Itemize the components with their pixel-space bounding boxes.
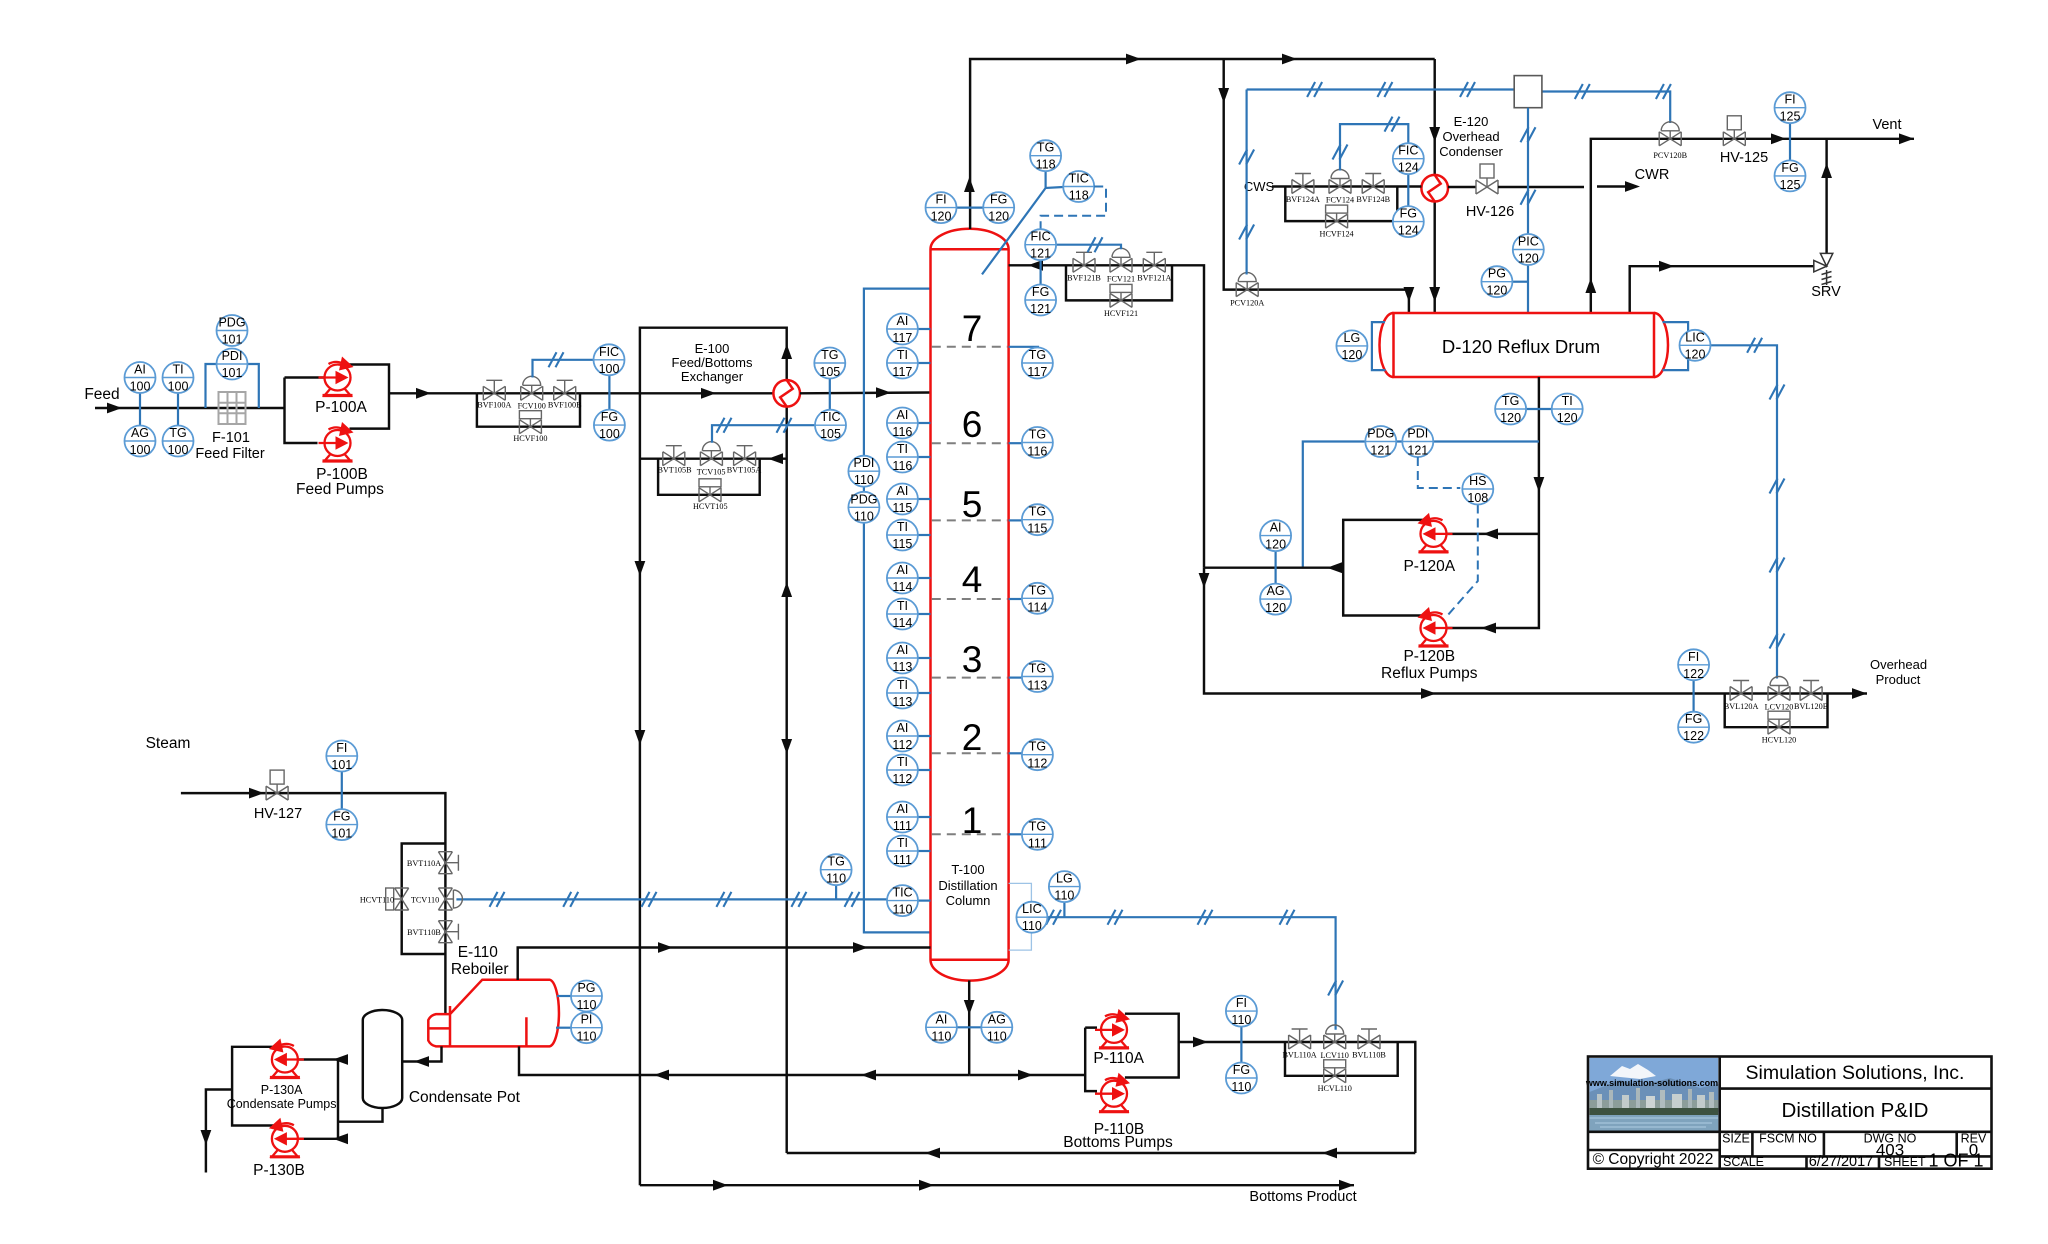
instrument TG 111 <box>1009 819 1053 851</box>
wire TCV110-TIC110 signal line <box>456 892 887 907</box>
tray 7 <box>932 308 1008 349</box>
svg-text:FIC: FIC <box>1398 144 1418 158</box>
svg-text:Feed Pumps: Feed Pumps <box>296 481 384 498</box>
svg-text:D-120 Reflux Drum: D-120 Reflux Drum <box>1442 336 1600 357</box>
svg-text:FI: FI <box>336 741 347 755</box>
svg-text:HV-126: HV-126 <box>1466 204 1514 220</box>
svg-text:Product: Product <box>1876 672 1921 687</box>
wire LIC110 signal to LCV110 <box>1046 910 1343 1030</box>
valve PCV120A <box>1236 273 1258 297</box>
svg-text:100: 100 <box>168 380 189 394</box>
svg-text:101: 101 <box>222 333 243 347</box>
svg-text:PDG: PDG <box>1367 427 1394 441</box>
wire E-100 hot-side loop (left downcomer, top, right riser) <box>635 328 793 1185</box>
instrument AI 112 <box>887 721 931 753</box>
svg-text:BVF121B: BVF121B <box>1067 274 1101 283</box>
instrument TI 112 <box>887 755 931 787</box>
svg-text:2: 2 <box>962 717 983 758</box>
instrument TI 120 <box>1552 394 1583 426</box>
svg-text:TG: TG <box>821 348 838 362</box>
svg-text:Overhead: Overhead <box>1870 657 1927 672</box>
svg-text:BVF124B: BVF124B <box>1356 195 1390 204</box>
instrument TI 117 <box>887 348 931 380</box>
svg-text:110: 110 <box>826 872 846 886</box>
svg-text:P-110A: P-110A <box>1093 1050 1144 1067</box>
svg-text:LG: LG <box>1344 331 1361 345</box>
wire bottoms pump suction/discharge box <box>1085 1014 1179 1091</box>
instrument TIC 110 <box>887 885 931 917</box>
instrument FG 110 <box>1226 1063 1257 1095</box>
svg-text:HS: HS <box>1469 474 1486 488</box>
svg-text:110: 110 <box>577 998 597 1012</box>
svg-text:Bottoms Pumps: Bottoms Pumps <box>1063 1134 1173 1151</box>
instrument TI 111 <box>887 836 931 868</box>
instrument TG 114 <box>1009 583 1053 615</box>
svg-text:Vent: Vent <box>1872 117 1901 133</box>
svg-text:TG: TG <box>1502 394 1519 408</box>
svg-text:115: 115 <box>892 501 912 515</box>
svg-text:121: 121 <box>1030 247 1051 261</box>
instrument PDG 110 <box>848 492 879 524</box>
svg-text:AI: AI <box>935 1012 947 1026</box>
pump P-120A <box>1418 513 1453 552</box>
svg-text:120: 120 <box>988 210 1009 224</box>
instrument PDI 110 <box>848 456 879 488</box>
svg-text:101: 101 <box>222 366 243 380</box>
instrument AG 110 <box>981 1012 1012 1044</box>
svg-text:FI: FI <box>1688 650 1699 664</box>
svg-text:113: 113 <box>892 695 912 709</box>
svg-text:6: 6 <box>962 404 983 445</box>
instrument TG 112 <box>1009 739 1053 771</box>
svg-text:122: 122 <box>1683 667 1704 681</box>
instrument AI 100 <box>125 362 156 394</box>
svg-text:AG: AG <box>988 1012 1006 1026</box>
instrument PDG 121 <box>1365 426 1396 458</box>
title block text company <box>1746 1062 1965 1084</box>
svg-text:TCV110: TCV110 <box>411 895 439 904</box>
svg-text:TIC: TIC <box>1069 172 1089 186</box>
svg-text:P-100A: P-100A <box>315 399 367 416</box>
wire PDI-101 tap loop around filter <box>206 364 259 408</box>
wire FIC100 signal to FCV100 <box>533 352 594 377</box>
instrument AG 120 <box>1260 584 1291 616</box>
valve LCV120 <box>1768 677 1790 701</box>
wire reflux pump discharge box <box>1204 520 1425 616</box>
svg-text:114: 114 <box>892 580 912 594</box>
svg-text:HCVL120: HCVL120 <box>1762 735 1797 744</box>
instrument FG 124 <box>1393 206 1424 238</box>
svg-text:120: 120 <box>1265 601 1286 615</box>
valve PCV120B <box>1659 122 1681 146</box>
svg-text:F-101: F-101 <box>212 430 250 446</box>
svg-text:Bottoms Product: Bottoms Product <box>1249 1189 1356 1205</box>
svg-text:125: 125 <box>1780 178 1801 192</box>
svg-text:AI: AI <box>896 484 908 498</box>
tray 6 <box>932 404 1008 445</box>
svg-text:FIC: FIC <box>1031 230 1051 244</box>
svg-text:115: 115 <box>892 537 912 551</box>
valve HCVL110 <box>1324 1060 1346 1083</box>
vessel D-120 reflux drum <box>1380 313 1668 377</box>
svg-text:116: 116 <box>892 459 912 473</box>
valve BVF121A <box>1143 252 1165 272</box>
svg-text:HV-125: HV-125 <box>1720 150 1768 166</box>
svg-text:TI: TI <box>897 348 908 362</box>
wire AI/AG-100 tap <box>139 392 141 426</box>
svg-text:105: 105 <box>820 427 841 441</box>
instrument PI 110 <box>571 1012 602 1044</box>
svg-text:SIZE: SIZE <box>1722 1132 1750 1146</box>
wire TIC118-FIC121 dashed signal <box>1041 187 1106 230</box>
valve TCV110 <box>438 888 462 910</box>
instrument FIC 100 <box>594 344 625 376</box>
svg-text:110: 110 <box>931 1029 951 1043</box>
exchanger E-120 overhead condenser <box>1421 175 1448 202</box>
svg-text:Distillation P&ID: Distillation P&ID <box>1782 1099 1929 1122</box>
svg-text:© Copyright 2022: © Copyright 2022 <box>1593 1151 1714 1168</box>
svg-text:Feed/Bottoms: Feed/Bottoms <box>672 355 753 370</box>
pump P-130A <box>269 1039 304 1078</box>
instrument FI 122 <box>1678 649 1709 681</box>
valve HCVF124 <box>1326 205 1348 228</box>
svg-text:FG: FG <box>990 193 1007 207</box>
svg-text:E-110: E-110 <box>458 944 499 961</box>
valve BVF124B <box>1362 174 1384 194</box>
svg-text:AI: AI <box>896 643 908 657</box>
instrument PIC 120 <box>1513 234 1544 266</box>
svg-text:PDG: PDG <box>850 492 877 506</box>
wire FIC121/FG121 tap <box>1039 260 1041 284</box>
svg-text:TI: TI <box>172 363 183 377</box>
instrument AI 113 <box>887 643 931 675</box>
instrument TI 113 <box>887 678 931 710</box>
wire condensate outlet to pot <box>402 1046 441 1067</box>
svg-text:120: 120 <box>1685 347 1706 361</box>
wire AI/AG-120 tap <box>1274 551 1276 584</box>
wire TG110 stub <box>835 885 837 899</box>
svg-text:HCVF100: HCVF100 <box>513 434 547 443</box>
vessel E-110 reboiler <box>428 980 559 1047</box>
svg-text:105: 105 <box>819 365 840 379</box>
valve BVL110B <box>1358 1029 1380 1049</box>
wire feed line to E-100 <box>580 388 773 399</box>
svg-text:Steam: Steam <box>146 735 191 752</box>
valve FCV100 <box>521 376 543 400</box>
wire condensate pump suction header <box>298 1054 348 1144</box>
wire vent line <box>1585 117 1914 313</box>
valve HCVF100 <box>519 411 541 434</box>
svg-text:BVF124A: BVF124A <box>1286 195 1320 204</box>
instrument AG 100 <box>125 426 156 458</box>
svg-text:LIC: LIC <box>1685 330 1704 344</box>
wire FI101/FG101 tap <box>341 772 343 810</box>
svg-text:125: 125 <box>1780 110 1801 124</box>
instrument FI 110 <box>1226 996 1257 1028</box>
svg-text:6/27/2017: 6/27/2017 <box>1809 1154 1874 1170</box>
svg-text:110: 110 <box>1231 1013 1251 1027</box>
svg-text:117: 117 <box>1027 365 1047 379</box>
instrument FI 125 <box>1775 92 1806 124</box>
wire LIC110 level bracket <box>1009 883 1032 950</box>
instrument TG 110 <box>821 854 852 886</box>
title block sheet value <box>1928 1151 1983 1171</box>
instrument HS 108 <box>1462 474 1493 506</box>
instrument FG 100 <box>594 410 625 442</box>
wire FI125/FG125 tap <box>1789 123 1791 160</box>
instrument PG 120 <box>1481 266 1512 298</box>
tray 5 <box>932 484 1008 525</box>
wire TG120/TI120 tap <box>1526 408 1552 410</box>
wire pump discharge to LCV110 manifold <box>1179 1037 1416 1153</box>
svg-text:110: 110 <box>577 1030 597 1044</box>
instrument TG 120 <box>1495 394 1526 426</box>
svg-text:HCVF121: HCVF121 <box>1104 309 1138 318</box>
svg-text:5: 5 <box>962 484 983 525</box>
svg-text:1 OF 1: 1 OF 1 <box>1928 1151 1983 1171</box>
instrument TG 117 <box>1009 347 1053 379</box>
svg-text:AI: AI <box>896 721 908 735</box>
title block bottom row <box>1723 1154 1926 1170</box>
svg-text:100: 100 <box>599 362 620 376</box>
instrument FI 120 <box>926 192 957 224</box>
wire TG105/TIC105 tap <box>829 379 831 410</box>
svg-text:BVF100A: BVF100A <box>477 401 511 410</box>
svg-text:110: 110 <box>1054 889 1074 903</box>
svg-text:TG: TG <box>169 426 186 440</box>
svg-text:AI: AI <box>896 802 908 816</box>
wire AI/AG-110 tap <box>957 1026 981 1028</box>
svg-text:TG: TG <box>1029 505 1046 519</box>
svg-text:FSCM NO: FSCM NO <box>1759 1132 1817 1146</box>
svg-text:110: 110 <box>893 903 913 917</box>
svg-text:FI: FI <box>935 193 946 207</box>
valve BVF124A <box>1292 174 1314 194</box>
instrument FI 101 <box>326 741 357 773</box>
vessel T-100 distillation column <box>931 229 1009 981</box>
svg-text:CWR: CWR <box>1635 167 1670 183</box>
svg-text:PI: PI <box>581 1013 593 1027</box>
wire feed inlet line <box>95 403 285 414</box>
valve HCVT110 <box>386 888 409 910</box>
instrument TG 113 <box>1009 661 1053 693</box>
wire HS108 dashed signal to pumps <box>1447 505 1478 617</box>
wire LIC120 signal to LCV120 <box>1711 338 1785 679</box>
valve HV-125 <box>1723 116 1745 146</box>
wire bottoms to pump suction <box>969 1070 1085 1081</box>
wire FIC121 signal to FCV121 <box>1057 237 1121 252</box>
svg-text:PCV120B: PCV120B <box>1653 151 1687 160</box>
valve BVT110A <box>438 852 458 874</box>
pump P-110B <box>1095 1073 1130 1112</box>
svg-text:FG: FG <box>1685 712 1702 726</box>
svg-text:TG: TG <box>1029 740 1046 754</box>
instrument TG 105 <box>814 348 845 380</box>
svg-text:Overhead: Overhead <box>1442 129 1499 144</box>
node CWS label <box>1244 179 1275 194</box>
svg-text:PIC: PIC <box>1518 235 1539 249</box>
valve BVL110A <box>1289 1029 1311 1049</box>
wire pump suction/discharge box P-100 <box>285 365 390 444</box>
valve FCV121 <box>1110 248 1132 272</box>
wire FIC100/FG100 tap <box>608 375 610 409</box>
title block frame <box>1588 1057 1992 1169</box>
svg-text:121: 121 <box>1407 444 1428 458</box>
relief valve SRV <box>1814 253 1833 285</box>
wire FCV124 signal loop <box>1333 117 1409 171</box>
vessel condensate pot <box>363 1010 402 1108</box>
svg-text:AI: AI <box>896 314 908 328</box>
instrument TG 115 <box>1009 504 1053 536</box>
svg-text:120: 120 <box>1265 538 1286 552</box>
svg-text:Condensate Pot: Condensate Pot <box>409 1089 521 1106</box>
svg-text:SRV: SRV <box>1811 284 1841 300</box>
svg-text:111: 111 <box>893 853 912 867</box>
svg-text:TI: TI <box>897 599 908 613</box>
svg-text:FG: FG <box>1032 285 1049 299</box>
svg-text:BVL110B: BVL110B <box>1352 1050 1386 1059</box>
valve LCV110 <box>1324 1025 1346 1049</box>
svg-text:FG: FG <box>333 810 350 824</box>
svg-text:115: 115 <box>1027 522 1047 536</box>
svg-text:7: 7 <box>962 308 983 349</box>
instrument LG 110 <box>1049 871 1080 903</box>
svg-text:111: 111 <box>1028 836 1047 850</box>
valve BVT105A <box>734 446 756 466</box>
svg-text:Exchanger: Exchanger <box>681 369 744 384</box>
svg-text:TIC: TIC <box>892 886 912 900</box>
svg-text:124: 124 <box>1398 224 1419 238</box>
pump P-100B <box>319 422 354 461</box>
svg-text:FG: FG <box>1400 207 1417 221</box>
svg-text:PDI: PDI <box>1407 427 1428 441</box>
svg-text:E-100: E-100 <box>695 341 730 356</box>
svg-text:PDG: PDG <box>218 316 245 330</box>
svg-text:112: 112 <box>1027 757 1047 771</box>
svg-text:TCV105: TCV105 <box>697 468 726 477</box>
tray 1 <box>932 800 1008 841</box>
instrument TI 114 <box>887 599 931 631</box>
svg-text:Simulation Solutions, Inc.: Simulation Solutions, Inc. <box>1746 1062 1965 1084</box>
instrument FIC 124 <box>1393 143 1424 175</box>
svg-text:120: 120 <box>931 210 952 224</box>
svg-text:121: 121 <box>1030 302 1051 316</box>
svg-text:100: 100 <box>130 380 151 394</box>
svg-text:TIC: TIC <box>820 410 840 424</box>
svg-text:FG: FG <box>601 410 618 424</box>
wire FIC124/FG124 tap <box>1407 174 1409 206</box>
svg-text:120: 120 <box>1557 411 1578 425</box>
title block text drawing title <box>1782 1099 1929 1122</box>
svg-text:TG: TG <box>1029 583 1046 597</box>
svg-text:BVF121A: BVF121A <box>1137 274 1171 283</box>
svg-text:100: 100 <box>599 427 620 441</box>
wire steam line <box>181 788 446 844</box>
svg-text:FG: FG <box>1233 1063 1250 1077</box>
svg-text:PCV120A: PCV120A <box>1230 299 1264 308</box>
instrument PDI 121 <box>1402 426 1433 458</box>
svg-text:LG: LG <box>1056 872 1073 886</box>
svg-text:Condenser: Condenser <box>1439 144 1503 159</box>
title block value REV 0 <box>1969 1141 1978 1160</box>
svg-text:TI: TI <box>897 755 908 769</box>
wire column bottom outlet <box>964 981 975 1076</box>
valve HCVF121 <box>1110 284 1132 307</box>
wire PCV120A vapor branch <box>1218 59 1414 313</box>
svg-text:1: 1 <box>962 800 983 841</box>
svg-text:113: 113 <box>1027 679 1047 693</box>
svg-text:110: 110 <box>1022 919 1042 933</box>
svg-text:FG: FG <box>1781 161 1798 175</box>
instrument PG 110 <box>571 981 602 1013</box>
svg-text:124: 124 <box>1398 161 1419 175</box>
svg-text:121: 121 <box>1370 444 1391 458</box>
svg-text:HCVT110: HCVT110 <box>360 895 394 904</box>
svg-text:116: 116 <box>892 425 912 439</box>
valve TCV105 <box>700 442 722 466</box>
wire condenser vertical (vapor to drum) <box>1429 59 1440 313</box>
svg-text:BVL110A: BVL110A <box>1282 1050 1316 1059</box>
svg-text:AG: AG <box>1267 584 1285 598</box>
instrument AI 110 <box>926 1012 957 1044</box>
svg-text:TG: TG <box>1029 819 1046 833</box>
instrument PDG 101 <box>217 315 248 347</box>
svg-text:FIC: FIC <box>599 345 619 359</box>
instrument relay box (PY) <box>1514 76 1542 108</box>
svg-text:118: 118 <box>1069 189 1089 203</box>
svg-text:HV-127: HV-127 <box>254 806 302 822</box>
svg-text:FCV121: FCV121 <box>1107 274 1135 283</box>
svg-text:AI: AI <box>134 363 146 377</box>
svg-text:111: 111 <box>893 819 912 833</box>
svg-text:101: 101 <box>331 827 352 841</box>
valve BVT110B <box>438 921 458 943</box>
svg-text:100: 100 <box>168 443 189 457</box>
svg-text:120: 120 <box>1341 348 1362 362</box>
svg-text:110: 110 <box>854 509 874 523</box>
wire PG120 stub <box>1512 281 1528 283</box>
svg-text:Reflux Pumps: Reflux Pumps <box>1381 665 1478 682</box>
svg-text:120: 120 <box>1486 284 1507 298</box>
wire PDG/PDI-121 dP taps <box>1303 442 1539 568</box>
wire CWS line and FCV124 manifold <box>1272 187 1421 222</box>
instrument LG 120 <box>1336 330 1367 362</box>
svg-text:BVT105A: BVT105A <box>727 466 762 475</box>
svg-text:P-130A: P-130A <box>261 1083 303 1097</box>
wire TI/TG-100 tap <box>177 392 179 426</box>
svg-text:110: 110 <box>854 473 874 487</box>
svg-text:118: 118 <box>1036 158 1056 172</box>
wire SRV branch <box>1630 139 1832 313</box>
svg-text:114: 114 <box>892 616 912 630</box>
wire LIC120 bracket <box>1663 322 1689 370</box>
instrument LIC 120 <box>1680 330 1711 362</box>
svg-text:HCVF124: HCVF124 <box>1320 230 1354 239</box>
valve BVF100B <box>554 380 576 400</box>
valve HV-126 <box>1448 164 1514 220</box>
svg-text:SHEET: SHEET <box>1884 1155 1926 1169</box>
svg-text:SCALE: SCALE <box>1723 1155 1764 1169</box>
svg-text:4: 4 <box>962 559 983 600</box>
svg-text:117: 117 <box>892 331 912 345</box>
pump P-100A <box>319 357 354 396</box>
instrument TIC 118 <box>1063 171 1094 203</box>
title block fields row <box>1722 1132 1987 1146</box>
wire PDI/PDG-110 column dP tap <box>864 289 931 933</box>
pump P-130B <box>269 1118 304 1157</box>
svg-text:BVF100B: BVF100B <box>548 401 582 410</box>
instrument TG 118 <box>1030 140 1061 172</box>
